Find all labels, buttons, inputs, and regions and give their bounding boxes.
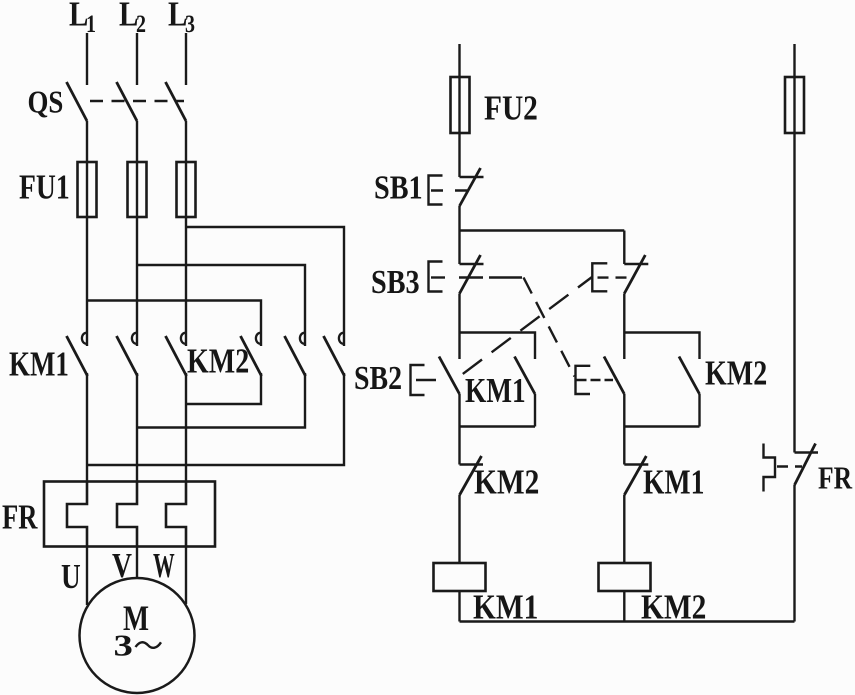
wire branch L3 to KM2 pole 3 [186, 227, 344, 346]
relay FR heater phase B [117, 482, 137, 547]
relay FR box [44, 482, 215, 547]
contactor KM1 main contact pole 2 [117, 333, 138, 376]
wire L1 stub [86, 33, 88, 85]
wire FR to bottom rail [793, 485, 795, 622]
wire phase C QS to KM contacts [185, 121, 187, 346]
wire KM1 aux to rejoin [534, 394, 536, 427]
wire coil KM1 to bottom rail [458, 591, 460, 622]
svg-text:U: U [61, 557, 81, 596]
svg-text:KM2: KM2 [474, 462, 539, 501]
relay FR actuator link dashed [777, 465, 802, 467]
link SB3 to its NO contact diagonal dashed [524, 278, 575, 377]
svg-text:SB3: SB3 [371, 263, 420, 301]
wire SB3NO to KM1 interlock [623, 394, 625, 465]
button SB3 actuator link dashed [431, 276, 522, 278]
wire split node to KM1 aux [460, 333, 536, 360]
wire bottom rail [460, 620, 795, 622]
wire node to right branch [460, 229, 625, 231]
switch QS pole 2 blade [117, 82, 138, 121]
wire SB3 to split node [458, 294, 460, 360]
wire control right rail top [793, 44, 795, 453]
svg-text:KM1: KM1 [643, 462, 704, 501]
contactor KM2 main contact pole 1 [241, 333, 262, 376]
wire KM2 aux to rejoin right [698, 394, 700, 427]
wire rejoin node left [460, 425, 536, 427]
wire phase B contact to FR [136, 373, 138, 482]
wire W to motor [185, 547, 187, 605]
wire coil KM2 to bottom rail [623, 591, 625, 622]
wire KM1 interlock to coil KM2 [623, 495, 625, 563]
node L3 label [168, 0, 195, 38]
svg-text:KM2: KM2 [705, 354, 767, 393]
svg-text:KM2: KM2 [187, 342, 249, 381]
button SB2 actuator link dashed [416, 379, 436, 381]
button SB2 actuator bracket [411, 365, 425, 395]
node L1 label [69, 0, 96, 38]
motor tilde [136, 642, 162, 648]
wire phase B QS to KM contacts [136, 121, 138, 346]
switch QS pole 1 blade [67, 82, 88, 121]
relay FR NC contact [795, 444, 819, 486]
contactor KM1 main contact pole 3 [166, 333, 187, 376]
wire U to motor [86, 547, 88, 606]
wire L2 stub [136, 33, 138, 85]
button SB2 NC actuator bracket [592, 263, 607, 291]
contactor KM2 aux contact blade [679, 357, 700, 395]
svg-text:SB2: SB2 [354, 358, 402, 396]
contactor KM1 interlock NC contact [624, 456, 648, 495]
svg-text:3: 3 [114, 628, 133, 662]
fuse FU1 pole 1 [78, 162, 97, 217]
contactor KM1 main contact pole 1 [67, 333, 88, 376]
wire phase C contact to FR [185, 373, 187, 482]
button SB3 NC contact [460, 255, 484, 294]
fuse FU2 right [785, 77, 804, 133]
wire KM2 interlock to coil KM1 [458, 495, 460, 563]
fuse FU2 [451, 77, 470, 133]
switch QS pole 3 blade [166, 82, 187, 121]
wire SB2 to KM2 interlock [458, 394, 460, 465]
wire KM2 pole 3 output to phase A [87, 373, 344, 465]
svg-text:KM1: KM1 [9, 344, 69, 383]
contactor KM2 interlock NC contact [460, 456, 484, 495]
wire L3 stub [185, 33, 187, 85]
button SB3 NO actuator link dashed [577, 379, 614, 381]
button SB1 actuator link dashed [431, 189, 468, 191]
wire phase A QS to KM contacts [86, 121, 88, 346]
wire SB1 to SB3 [458, 206, 460, 264]
fuse FU1 pole 3 [177, 162, 196, 217]
wire rejoin node right [624, 425, 699, 427]
node L2 label [119, 0, 146, 38]
wire KM2 pole 2 output to phase B [137, 373, 305, 428]
motor M circle [80, 578, 195, 693]
coil KM1 [434, 563, 486, 591]
relay FR heater phase A [67, 482, 87, 547]
svg-text:FR: FR [2, 497, 38, 536]
wire control left rail top [458, 44, 460, 177]
button SB1 NC contact [460, 168, 484, 206]
switch QS linkage dashed [90, 100, 184, 102]
wire phase A contact to FR [86, 373, 88, 482]
fuse FU1 pole 2 [128, 162, 147, 217]
button SB2 NO contact blade [439, 357, 460, 395]
wire KM2 pole 1 output to phase C [186, 373, 261, 404]
relay FR heater phase C [166, 482, 186, 547]
svg-text:SB1: SB1 [374, 168, 423, 206]
wire V to motor [136, 547, 138, 579]
contactor KM2 main contact pole 2 [285, 333, 306, 376]
coil KM2 [599, 563, 651, 591]
wire branch L2 to KM2 pole 2 [137, 265, 305, 346]
link SB2 to its NC contact diagonal dashed [452, 277, 592, 382]
button SB2 NC actuator link dashed [598, 276, 632, 278]
button SB3 NO actuator bracket [576, 366, 591, 394]
wire right branch top [623, 231, 625, 265]
svg-text:FR: FR [818, 461, 853, 496]
svg-text:KM1: KM1 [465, 371, 526, 410]
svg-text:FU2: FU2 [484, 88, 538, 127]
svg-text:QS: QS [28, 85, 64, 120]
button SB1 actuator bracket [429, 176, 443, 205]
svg-text:FU1: FU1 [19, 167, 70, 206]
relay FR actuator [764, 444, 776, 492]
svg-text:W: W [153, 547, 175, 585]
wire split node right to KM2 aux [624, 333, 699, 360]
button SB2 NC contact (right branch) [624, 255, 648, 294]
contactor KM1 aux contact blade [515, 357, 536, 395]
contactor KM2 main contact pole 3 [324, 333, 345, 376]
wire branch L1 to KM2 pole 1 [87, 301, 261, 347]
button SB3 NO contact blade (right branch) [604, 357, 624, 395]
svg-text:KM2: KM2 [641, 587, 706, 626]
button SB3 actuator bracket [429, 262, 443, 292]
wire SB2NC to split node right [623, 294, 625, 360]
svg-text:KM1: KM1 [473, 587, 538, 626]
